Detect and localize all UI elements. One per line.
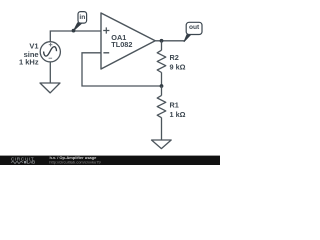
node junction (output / R2 top) (160, 39, 164, 43)
svg-text:TL082: TL082 (111, 40, 132, 49)
voltage source V1 labels (19, 42, 39, 67)
voltage source V1 (40, 42, 60, 62)
svg-text:R2: R2 (170, 53, 179, 62)
svg-text:9 kΩ: 9 kΩ (170, 63, 186, 72)
resistor R2 (157, 41, 185, 86)
ground (V1) (40, 83, 60, 93)
wire feedback: -input left, down, right to R junction (82, 53, 162, 86)
ground (R1) (152, 140, 172, 149)
op-amp OA1 (101, 13, 155, 69)
wire V1 top to +input corner (50, 31, 101, 42)
node in flag (72, 12, 87, 33)
svg-text:1 kΩ: 1 kΩ (170, 110, 186, 119)
svg-text:LAB: LAB (27, 160, 35, 165)
footer CircuitLab logo (11, 156, 35, 164)
wire V1 bottom to ground (49, 62, 51, 83)
node junction (R2/R1/feedback) (160, 84, 164, 88)
svg-text:out: out (189, 24, 200, 31)
wire output to out flag (155, 40, 184, 42)
footer bar (0, 156, 220, 165)
svg-text:1 kHz: 1 kHz (19, 57, 39, 66)
svg-text:in: in (79, 14, 85, 21)
resistor R1 (157, 86, 185, 140)
svg-text:http://circuitlab.com/c/xvku79: http://circuitlab.com/c/xvku79 (49, 159, 101, 164)
node out flag (184, 22, 202, 42)
svg-text:R1: R1 (170, 101, 179, 110)
